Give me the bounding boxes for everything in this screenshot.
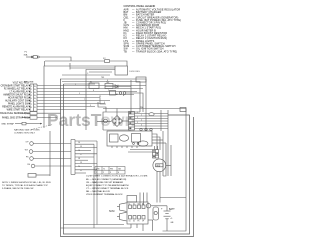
hm connector stack [153, 150, 159, 159]
svg-text:4: 4 [31, 95, 32, 97]
fuse F2 [105, 60, 110, 63]
sub wires [130, 149, 152, 151]
natural gas note [14, 129, 40, 135]
svg-text:4: 4 [118, 172, 119, 174]
svg-text:3: 3 [110, 172, 111, 174]
connector P2 bracket [71, 140, 97, 229]
fuel switch [28, 174, 36, 178]
svg-text:N: N [34, 89, 36, 91]
svg-text:N: N [34, 107, 36, 109]
svg-text:A1: A1 [116, 93, 118, 96]
svg-text:HOUR METER P(S): HOUR METER P(S) [8, 98, 29, 100]
svg-text:2: 2 [103, 172, 104, 174]
bottom ticks [111, 146, 113, 148]
svg-text:N: N [34, 92, 36, 94]
bracket 2 [120, 212, 127, 221]
svg-text:SS: SS [27, 164, 30, 166]
connector P1 bracket [29, 84, 31, 111]
terminals top [140, 128, 142, 130]
svg-text:CONTROL PANEL LEGEND: CONTROL PANEL LEGEND [124, 5, 156, 8]
pins top row [129, 205, 132, 209]
svg-text:REMOTE ALARM RELAY: REMOTE ALARM RELAY [2, 106, 29, 109]
DC meter oval [138, 131, 171, 196]
svg-text:TRACE FUEL SENDER P(S): TRACE FUEL SENDER P(S) [0, 112, 29, 115]
svg-text:3: 3 [31, 92, 32, 94]
stack wires [135, 113, 169, 115]
svg-text:OP: OP [25, 142, 29, 144]
svg-text:B: B [123, 95, 125, 97]
dashed callout [31, 125, 53, 130]
svg-text:TB2: TB2 [106, 82, 109, 84]
svg-text:21: 21 [80, 170, 82, 172]
svg-text:+5: +5 [170, 218, 173, 220]
wire bus top [45, 61, 127, 66]
svg-text:TO TERM 4, TYPICAL FOR EACH PH: TO TERM 4, TYPICAL FOR EACH PHASE TOP [2, 184, 48, 187]
box wires right [152, 134, 157, 150]
svg-text:PANEL GND STRAP P(S): PANEL GND STRAP P(S) [2, 117, 29, 120]
rounded module [153, 207, 159, 220]
wire F1 top [26, 56, 33, 58]
svg-text:CT — INTERCONNECT TERMINAL BLO: CT — INTERCONNECT TERMINAL BLOCK [86, 187, 129, 190]
svg-text:N: N [34, 86, 36, 88]
svg-text:FLYWHEEL ALT RELAY: FLYWHEEL ALT RELAY [4, 88, 29, 91]
svg-text:9: 9 [90, 105, 91, 107]
svg-text:18: 18 [78, 158, 80, 160]
pins bottom row [129, 216, 132, 220]
meter box [107, 128, 166, 152]
fuse F1 [33, 56, 37, 59]
vertical bus TB [167, 110, 169, 176]
svg-text:8: 8 [31, 107, 32, 109]
svg-text:000: 000 [156, 165, 161, 168]
svg-text:LTB IS CURRENT TERMINAL BLOCK: LTB IS CURRENT TERMINAL BLOCK [86, 193, 123, 196]
svg-text:5: 5 [79, 93, 80, 95]
svg-text:GB: GB [171, 222, 175, 224]
svg-text:T1: T1 [103, 168, 105, 170]
svg-text:1: 1 [31, 86, 32, 88]
svg-text:TRANSF BLOCK (30A, ATO TYPE): TRANSF BLOCK (30A, ATO TYPE) [136, 50, 177, 53]
SCM to battery wire [151, 205, 167, 207]
svg-text:K1: K1 [90, 82, 92, 84]
svg-text:PANEL LIGHTS SW: PANEL LIGHTS SW [8, 103, 29, 106]
relay K1 [89, 83, 99, 89]
svg-text:F1: F1 [25, 52, 28, 54]
customer connection legend [86, 175, 148, 197]
svg-text:AUXILIARY CONT SW: AUXILIARY CONT SW [5, 100, 29, 103]
svg-text:CONNECTION ONLY: CONNECTION ONLY [14, 133, 36, 135]
svg-text:WIRE START RELAY: WIRE START RELAY [7, 109, 29, 112]
svg-text:ST: ST [138, 203, 140, 205]
big panel box [86, 70, 115, 131]
svg-text:B+: B+ [129, 203, 131, 205]
bracket 1 [120, 203, 127, 212]
svg-text:AMMETER SHUNT P(S): AMMETER SHUNT P(S) [3, 94, 28, 97]
pin arrowheads P1 [29, 85, 31, 87]
small box top [127, 196, 137, 203]
svg-text:FS: FS [138, 220, 140, 222]
terminal block TB [105, 84, 113, 89]
svg-text:WT: WT [25, 150, 29, 152]
svg-text:5: 5 [31, 98, 32, 100]
svg-text:SCM: SCM [109, 210, 114, 213]
ammeter oval [119, 135, 128, 141]
inner rect meter [110, 134, 119, 142]
diamond left wire [97, 121, 111, 123]
svg-text:PM: PM [110, 168, 113, 170]
legend rows [124, 8, 182, 53]
box main panel [44, 66, 115, 80]
svg-text:PIN CONN: PIN CONN [24, 82, 34, 84]
svg-text:12: 12 [99, 96, 101, 98]
svg-text:FS: FS [26, 157, 29, 159]
svg-text:CUSTOMER CONNECTION & ALTERNAT: CUSTOMER CONNECTION & ALTERNATOR LOOMS [86, 175, 148, 178]
bottom note text [2, 182, 51, 190]
svg-text:100W RES: 100W RES [129, 71, 140, 73]
svg-text:7: 7 [84, 99, 85, 101]
lamp oval [149, 113, 154, 116]
pin row wires [37, 85, 146, 87]
vertical feeders [61, 79, 194, 237]
LTB terminal table [95, 167, 125, 175]
svg-text:30A: 30A [24, 53, 28, 56]
pressure switch [22, 112, 61, 120]
svg-text:LT ALARM RELAY: LT ALARM RELAY [10, 91, 29, 94]
svg-text:+: + [161, 208, 163, 211]
top link wire [160, 197, 186, 199]
box inner panel [69, 63, 71, 70]
wire to right edge [103, 109, 186, 232]
svg-text:—: — [132, 50, 135, 53]
svg-text:N: N [34, 95, 36, 97]
connector stack [129, 112, 135, 131]
step wire [98, 102, 106, 112]
feeder branch buses [61, 227, 132, 229]
svg-text:2: 2 [31, 89, 32, 91]
svg-text:TB: TB [124, 50, 128, 53]
svg-text:BATT: BATT [169, 208, 175, 211]
aux contact circles [119, 92, 122, 95]
svg-text:G2: G2 [133, 220, 135, 222]
circle terminal [146, 204, 150, 208]
svg-text:NB — NEUTRAL BLOCK: NB — NEUTRAL BLOCK [86, 190, 111, 193]
sender circles [29, 142, 71, 168]
wire band rows [62, 74, 110, 76]
svg-text:2: 2 [108, 90, 109, 92]
battery plates [164, 210, 171, 212]
svg-text:CB — MAIN LINE CIRCUIT BREAKER: CB — MAIN LINE CIRCUIT BREAKER [86, 181, 124, 184]
svg-text:6: 6 [31, 101, 32, 103]
svg-text:3-PHASE, SEE NOTE 2 BELOW.: 3-PHASE, SEE NOTE 2 BELOW. [2, 187, 34, 190]
svg-text:6: 6 [93, 90, 94, 92]
verticals right mid [93, 144, 95, 228]
svg-text:EQUIP CONNECT TO TELEMETER EAR: EQUIP CONNECT TO TELEMETER EARTH [86, 184, 129, 187]
svg-text:CROWBAR START RELAY: CROWBAR START RELAY [1, 85, 29, 88]
diode CR1 [115, 85, 118, 88]
SCM module [117, 193, 186, 232]
bridge rectifier diamond [28, 108, 186, 232]
svg-text:TB1: TB1 [101, 77, 104, 79]
TB pin labels [137, 112, 142, 127]
svg-text:14: 14 [78, 142, 80, 144]
lamp DS1 [104, 119, 108, 123]
vertical w50 [49, 131, 51, 176]
connector P1 pins and wires [37, 86, 146, 110]
svg-text:3: 3 [104, 102, 105, 104]
avr box right [180, 108, 186, 112]
main SCM box [127, 202, 148, 224]
svg-text:OP: OP [142, 220, 144, 222]
svg-text:1: 1 [75, 84, 76, 86]
svg-text:17: 17 [80, 154, 82, 156]
svg-text:1: 1 [96, 172, 97, 174]
svg-text:NOTE 1: WIRES SHOWN FOR SEL, L: NOTE 1: WIRES SHOWN FOR SEL, LBL, NL RUN [2, 182, 51, 184]
wire meter down [156, 196, 158, 203]
svg-text:N: N [34, 98, 36, 100]
box rect panel [103, 112, 140, 130]
svg-text:7: 7 [31, 104, 32, 106]
svg-text:ML — MOLEX CONNECT (GENERATOR): ML — MOLEX CONNECT (GENERATOR) [86, 178, 127, 181]
svg-text:N: N [34, 104, 36, 106]
svg-text:N: N [34, 101, 36, 103]
svg-text:NATURAL GAS OPTIONS: NATURAL GAS OPTIONS [14, 129, 40, 132]
svg-text:GND STRAP: GND STRAP [1, 123, 14, 126]
hour meter circle [153, 159, 166, 172]
wire number labels [75, 73, 125, 172]
terminal block TB3 [136, 77, 146, 82]
svg-text:G1: G1 [129, 220, 131, 222]
resistor R 100W [115, 66, 128, 75]
battery leads [166, 206, 168, 211]
